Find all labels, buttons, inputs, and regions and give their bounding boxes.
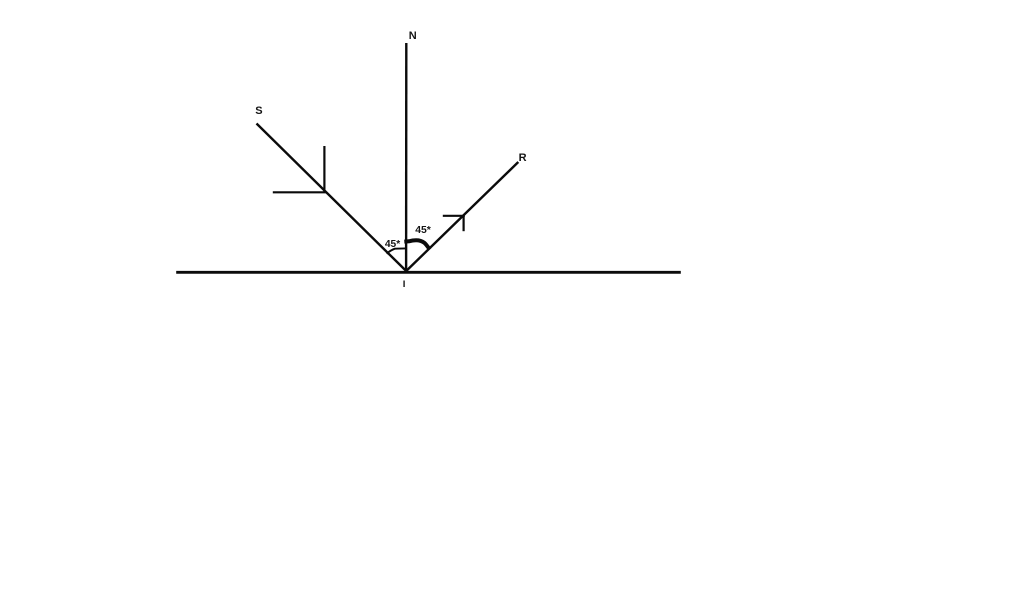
svg-text:N: N	[409, 30, 417, 42]
reflected arrow vertical stroke	[463, 216, 465, 231]
incident arrow horizontal stroke	[273, 191, 326, 193]
svg-text:R: R	[519, 152, 527, 164]
svg-text:45*: 45*	[415, 225, 432, 236]
svg-text:45*: 45*	[385, 239, 400, 250]
mirror surface line	[176, 271, 681, 274]
svg-text:S: S	[255, 105, 262, 117]
left angle arc	[387, 248, 406, 253]
reflected ray R	[406, 162, 518, 271]
incident ray S	[257, 124, 407, 272]
svg-text:I: I	[403, 279, 406, 290]
reflected arrow horizontal stroke	[443, 215, 465, 217]
normal line N	[405, 43, 408, 272]
right angle arc thick	[404, 240, 429, 249]
incident arrow vertical stroke	[323, 146, 325, 193]
